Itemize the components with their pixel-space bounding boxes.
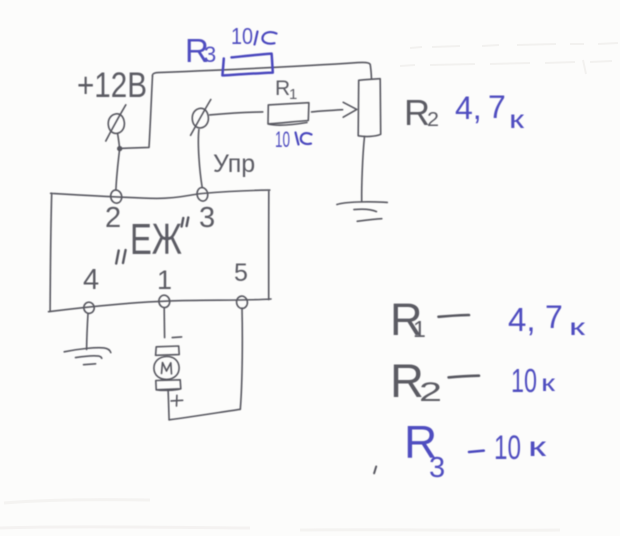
- wire junction to pin 2: [116, 149, 120, 190]
- motor terminal cap top: [156, 346, 180, 355]
- svg-text:4,: 4,: [508, 301, 536, 338]
- faint scanner artifacts top right (decorative): [400, 43, 618, 74]
- svg-text:4: 4: [83, 264, 99, 296]
- legend R3 dash (blue): [469, 451, 484, 452]
- wire terminal to junction: [118, 134, 120, 149]
- blue ink group: [222, 32, 483, 453]
- svg-text:+12В: +12В: [77, 66, 147, 105]
- svg-text:10: 10: [494, 429, 521, 467]
- wire pin 4 to ground: [87, 314, 88, 350]
- svg-text:R: R: [275, 77, 290, 100]
- svg-text:10: 10: [275, 127, 290, 152]
- svg-text:к: к: [541, 370, 556, 396]
- motor terminal cap bottom: [156, 380, 181, 391]
- svg-text:Упр: Упр: [213, 150, 255, 178]
- svg-text:к: к: [528, 431, 547, 462]
- svg-text:7: 7: [545, 299, 563, 335]
- svg-text:2: 2: [105, 202, 121, 234]
- wire Upr terminal to R1: [210, 112, 263, 115]
- resistor R3 body (blue): [222, 54, 272, 76]
- svg-text:3: 3: [204, 42, 216, 67]
- faint bottom-left streaks (decorative): [0, 500, 560, 531]
- pin 3 circle: [196, 187, 209, 202]
- legend comma before R3: [374, 467, 376, 474]
- terminal +12V: [106, 105, 126, 141]
- svg-text:5: 5: [234, 259, 248, 287]
- wire top rail (R3 net, +12V to R2 top): [152, 62, 371, 79]
- pin 1 circle: [158, 295, 170, 309]
- junction dot: [117, 146, 122, 151]
- wire R2 bottom to ground: [362, 136, 365, 201]
- motor plus mark: [171, 395, 183, 406]
- svg-text:к: к: [509, 104, 525, 134]
- svg-text:ЕЖ: ЕЖ: [130, 215, 182, 264]
- ground under pin 4: [64, 348, 111, 365]
- terminal Upr: [191, 100, 211, 136]
- pin 2 circle: [110, 189, 123, 204]
- svg-text:3: 3: [199, 202, 215, 234]
- legend R1 dash: [439, 315, 470, 317]
- svg-text:3: 3: [429, 452, 445, 484]
- wire Upr terminal to pin 3: [198, 130, 202, 188]
- value 10к above R3: handwritten к: [255, 32, 277, 45]
- pin 4 circle: [83, 302, 95, 315]
- wire +12V junction up to top rail: [120, 76, 153, 148]
- resistor R1 body: [268, 103, 309, 125]
- svg-text:1: 1: [413, 316, 426, 342]
- svg-text:1: 1: [289, 86, 297, 103]
- quote marks around ЕЖ: [116, 218, 188, 264]
- blue ink text: [185, 23, 586, 484]
- svg-text:2: 2: [419, 377, 442, 407]
- motor M1 body: [154, 356, 179, 379]
- svg-text:10: 10: [511, 362, 537, 399]
- wire lower rail to pin 5 riser: [169, 409, 240, 420]
- svg-text:4,: 4,: [455, 90, 482, 126]
- svg-text:2: 2: [427, 109, 439, 131]
- svg-text:10: 10: [231, 23, 253, 49]
- svg-text:к: к: [569, 314, 586, 340]
- potentiometer R2 body: [358, 79, 381, 137]
- ground under R2: [337, 202, 387, 221]
- motor minus mark: [172, 336, 181, 339]
- value 10к below R1: handwritten к: [296, 133, 312, 145]
- wire pin 1 to motor: [163, 308, 165, 338]
- wire motor bottom to lower rail: [168, 390, 169, 420]
- legend R2 dash: [449, 376, 479, 378]
- svg-text:7: 7: [488, 89, 506, 125]
- pencil text: [77, 66, 442, 407]
- IC box ЕЖ: [49, 190, 272, 312]
- pin 5 circle: [236, 295, 248, 309]
- wire R1 to R2 wiper (arrow): [312, 102, 357, 117]
- svg-text:1: 1: [157, 265, 172, 295]
- wire riser up to pin 5: [240, 308, 242, 409]
